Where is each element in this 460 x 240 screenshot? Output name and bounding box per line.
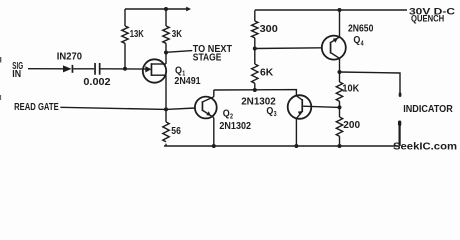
transistor Q4 2N650 bbox=[322, 10, 374, 72]
transistor Q3 2N1302 (mirrored) bbox=[241, 95, 339, 146]
node junction 3K / Q1 base-2 / to-next-stage bbox=[164, 51, 168, 55]
svg-text:10K: 10K bbox=[342, 83, 359, 95]
resistor 300 bbox=[252, 10, 278, 48]
svg-text:2N491: 2N491 bbox=[174, 75, 200, 87]
svg-text:6K: 6K bbox=[260, 67, 274, 79]
resistor 3K bbox=[163, 9, 183, 53]
svg-text:56: 56 bbox=[171, 125, 181, 137]
svg-text:13K: 13K bbox=[130, 28, 144, 40]
wire to indicator top terminal bbox=[340, 72, 402, 97]
node junction 6K bottom bbox=[253, 88, 257, 92]
wire read gate line to Q2 base bbox=[60, 107, 195, 109]
svg-text:Q: Q bbox=[353, 35, 360, 46]
svg-text:300: 300 bbox=[260, 23, 278, 35]
svg-text:STAGE: STAGE bbox=[193, 51, 222, 63]
svg-text:4: 4 bbox=[361, 41, 364, 48]
capacitor 0.002 bbox=[83, 63, 110, 88]
resistor 200 bbox=[336, 107, 360, 146]
svg-text:QUENCH: QUENCH bbox=[411, 14, 444, 25]
wire top rail 30V bbox=[255, 6, 455, 24]
svg-text:3K: 3K bbox=[172, 28, 183, 40]
diode 1N270 bbox=[57, 51, 82, 73]
wire capacitor to Q1 emitter bbox=[101, 68, 147, 70]
edge mark top-left bbox=[0, 57, 1, 63]
svg-text:2N650: 2N650 bbox=[348, 22, 374, 34]
resistor 13K bbox=[122, 9, 144, 69]
wire diode to capacitor bbox=[73, 68, 94, 70]
svg-text:SeekIC.com: SeekIC.com bbox=[393, 140, 457, 152]
wire indicator bottom terminal stub bbox=[398, 121, 401, 147]
svg-text:IN: IN bbox=[12, 68, 21, 80]
transistor Q1 2N491 unijunction bbox=[143, 53, 201, 110]
node SIG IN label bbox=[12, 60, 23, 80]
wire Q2 collector to Q3 collector / 6K node bbox=[214, 90, 297, 96]
node junction read-gate / Q1 base-1 / 56 bbox=[164, 107, 168, 111]
resistor 10K bbox=[336, 72, 359, 107]
wire bottom rail bbox=[164, 144, 398, 148]
svg-text:IN270: IN270 bbox=[57, 51, 82, 63]
edge mark mid-left bbox=[0, 95, 1, 100]
resistor 6K bbox=[252, 49, 274, 91]
svg-text:Q: Q bbox=[266, 106, 273, 117]
svg-text:INDICATOR: INDICATOR bbox=[403, 103, 453, 115]
svg-text:2N1302: 2N1302 bbox=[219, 120, 251, 132]
wire SIG IN to diode bbox=[28, 68, 64, 70]
svg-text:200: 200 bbox=[343, 119, 360, 131]
svg-text:READ GATE: READ GATE bbox=[14, 101, 59, 113]
wire to next stage bbox=[166, 43, 233, 64]
node junction cap/13K bbox=[123, 67, 127, 71]
node junction Q4 collector / 10K / indicator bbox=[338, 70, 342, 74]
wire Q4 base line bbox=[255, 47, 322, 50]
node junction 10K/200/Q3 base bbox=[338, 105, 342, 109]
resistor 56 bbox=[163, 109, 181, 146]
svg-text:3: 3 bbox=[274, 111, 277, 118]
node junction 300/6K/Q4 base bbox=[253, 47, 257, 51]
transistor Q2 2N1302 bbox=[195, 90, 251, 146]
svg-text:Q: Q bbox=[223, 108, 230, 119]
svg-text:0.002: 0.002 bbox=[83, 76, 110, 88]
wire top-left supply rail with arrow tip bbox=[125, 7, 191, 12]
